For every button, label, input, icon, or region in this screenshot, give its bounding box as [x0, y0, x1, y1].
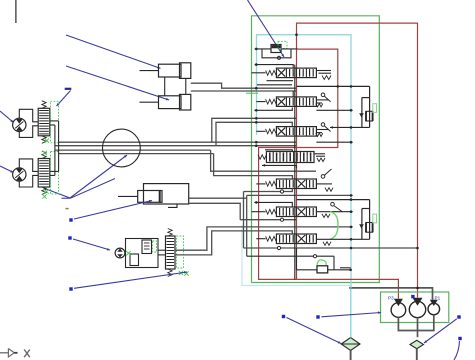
cyan lower-left boundary jog [242, 225, 351, 286]
V5 pilot [321, 175, 325, 179]
V2 bottom loop line [254, 108, 292, 111]
bundle pair1 tee up to valve V2 loop [212, 118, 296, 142]
V6 green hose arc [330, 212, 338, 240]
cyan boundary rect [257, 35, 352, 286]
valve B in manifold [130, 254, 139, 266]
svg-text:P3: P3 [388, 296, 394, 301]
valve V3 [276, 127, 316, 137]
hydraulic motor at y=124.9 [13, 118, 26, 131]
red outer boundary: top and right rail down to pump P1 [297, 23, 418, 297]
V4 tank right [314, 153, 325, 155]
green X marks near stack 1 [45, 138, 49, 142]
valve V1 [276, 68, 316, 78]
V6 pilot [331, 202, 335, 206]
filter diamond F1 under cyan rail [341, 338, 360, 351]
marker + leader bottom right [458, 337, 461, 340]
V6 top loop line [254, 202, 292, 207]
wire bundle pair 2 [55, 149, 211, 151]
cylinder C2 port line [191, 90, 296, 92]
V3 pilot [321, 123, 325, 127]
leader to motor M2 [0, 166, 14, 173]
V2 pilot [321, 93, 325, 97]
left proportional valve stack y=158.5 [38, 159, 50, 188]
marker + leader to V8 (bottom-left) [69, 287, 72, 290]
green X marks near stack 2 [44, 189, 48, 193]
cylinder C2 [159, 96, 182, 109]
UCS icon arrow [0, 352, 8, 354]
marker + leader to pump box [316, 315, 319, 318]
marker + leader to filter F1 [282, 315, 285, 318]
wire bundle pair 1 [59, 141, 296, 143]
cylinder C1 [159, 64, 182, 77]
small green wire mark under V1 [246, 92, 258, 94]
manifold box [126, 239, 159, 268]
V5 loop below [244, 189, 293, 192]
center rail (black) [294, 65, 296, 280]
pump drain loop [398, 315, 433, 331]
V1 loop below [267, 80, 294, 82]
V6 bottom loop line with circle [240, 219, 296, 221]
leader to cylinder C1 [66, 35, 161, 68]
feed risers from lower assembly [243, 192, 245, 249]
green squiggle above check box [317, 260, 326, 265]
olive dash [65, 208, 68, 210]
check valve loop at bank bottom [247, 255, 334, 257]
marker + leader to filter F2 [457, 315, 460, 318]
V4 arrow line below [262, 164, 296, 166]
V7 loop below / tank return [244, 247, 418, 249]
V1 tank symbol right [316, 70, 331, 72]
leader to left valve stack 1 [57, 91, 71, 107]
hydraulic motor at y=174.5 [13, 168, 26, 181]
cyan rail down to filter [350, 286, 352, 289]
short black line into cyan at bottom [340, 267, 351, 269]
UCS icon X label [24, 350, 30, 358]
vertical stub line top-left [15, 0, 17, 23]
marker + leader to pump M3 [68, 236, 71, 239]
line above V2 drop [292, 91, 294, 97]
cylinder C3 (middle) [144, 184, 189, 204]
junction dot cyan top edge x red rail [295, 33, 298, 36]
svg-text:P1: P1 [435, 296, 441, 301]
tank suction gray line to P2 [351, 288, 433, 300]
line above V1 [255, 65, 294, 69]
leader to left valve stack 2 [44, 179, 116, 199]
pump/motor M3 [115, 248, 125, 258]
valve V6 [276, 207, 316, 217]
main relief valve (top) [271, 45, 281, 53]
port relief valve R2 [297, 199, 370, 201]
leader to cylinder C2 [66, 66, 169, 100]
pump P2 [428, 303, 440, 315]
valve V2 [276, 97, 316, 107]
valve V4 (wide striped) [266, 152, 314, 163]
manifold to V8 connecting lines [158, 249, 166, 251]
pump P3 [391, 303, 406, 318]
cylinder connectors [164, 77, 166, 96]
stack port risers [58, 121, 60, 171]
valve V5 [276, 179, 316, 189]
leader to motor M1 [0, 111, 14, 123]
bundle pair2 drop to row 4 [211, 150, 316, 171]
leader to top relief valve [248, 0, 285, 57]
blue marker in pump box [411, 295, 414, 298]
pump group green box [381, 292, 449, 323]
V8 output lines [175, 227, 353, 250]
pump P1 [409, 301, 425, 317]
valve A in manifold [142, 240, 152, 254]
vertical valve stack V8 [166, 236, 176, 269]
big circle (swing joint) [103, 129, 141, 167]
cylinder C3 port lines [189, 197, 247, 199]
V3 lower loop line [265, 150, 292, 152]
green dashes near valve A [153, 241, 157, 252]
marker + leader to middle cylinder [69, 218, 72, 221]
cylinder C1 port line [191, 83, 296, 88]
left proportional valve stack y=108.3 [38, 108, 50, 136]
green system boundary rect [252, 16, 380, 283]
red inner boundary rect [259, 49, 399, 298]
valve V7 [276, 234, 316, 244]
port relief valve R1 [297, 85, 370, 87]
leader from big circle [70, 155, 127, 198]
filter diamond F2 under pumps [410, 340, 424, 348]
